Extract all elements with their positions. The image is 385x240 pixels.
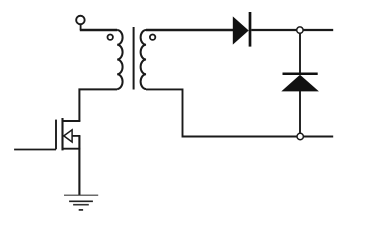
wire (primary bottom lead to MOSFET drain) [79,89,117,121]
wire (diode D2 anode down to bottom junction) [299,91,301,137]
diode D1 (series rectifier) [233,12,250,47]
diode D2 (shunt, cathode up) [281,74,319,92]
transformer TX1 primary winding [117,30,122,89]
transformer TX1 secondary winding [141,30,146,89]
ground (earth symbol) [64,195,98,210]
drain lead [63,120,81,122]
channel bar [61,118,63,150]
node (top-right junction, open circle) [297,27,303,33]
wire (source down to ground) [78,136,80,195]
source lead [63,148,81,150]
transformer TX1 primary phasing dot [108,35,113,40]
wire (secondary bottom lead) [146,89,333,136]
wire (gate lead) [14,149,56,151]
wire (diode D1 cathode to output node) [251,29,333,31]
node (bottom-right junction, open circle) [297,133,303,139]
transistor Q1 (N-channel MOSFET) [56,118,80,150]
transformer TX1 secondary phasing dot [150,35,155,40]
body lead with arrow [72,135,81,137]
transformer TX1 core [133,27,135,90]
gate bar [55,120,57,150]
wire (top-left to primary top) [80,29,117,32]
wire (junction down to diode D2 cathode) [299,34,301,74]
terminal P1 (input, open circle) [76,16,85,30]
wire (secondary top to diode D1 anode) [146,29,233,32]
